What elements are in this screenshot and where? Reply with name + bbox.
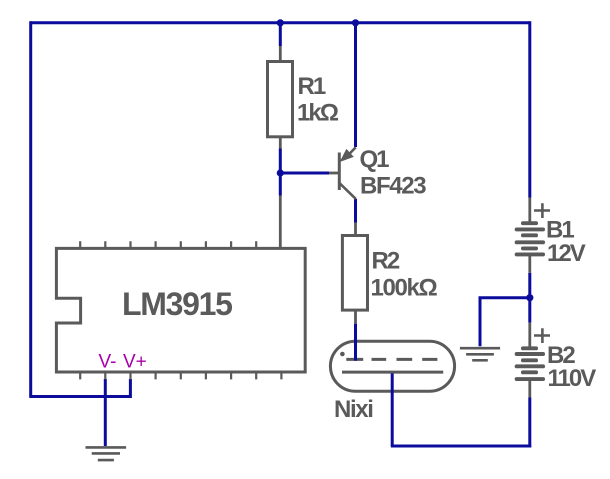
IC U1 LM3915 box [56,248,305,372]
wire bottom rail [391,445,531,448]
battery B1 leads [528,198,531,273]
wire base [280,172,329,175]
nixie tube pin-1 dot [340,352,345,357]
transistor Q1 emitter arrow [340,149,354,162]
svg-text:Nixi: Nixi [334,396,373,423]
wire emitter feed [354,23,357,147]
svg-text:1kΩ: 1kΩ [297,100,339,127]
svg-text:LM3915: LM3915 [122,286,232,322]
wire R1 bottom to base junction [279,149,282,196]
battery B2 plus sign [534,328,550,343]
wire left rail [29,21,32,396]
IC U1 bottom pins [80,373,281,379]
svg-text:BF423: BF423 [360,173,426,200]
node junction battery mid [526,294,533,301]
wire R2 to Nixi anode [354,324,357,361]
wire B2 bottom [528,398,531,448]
IC U1 top pins [80,241,256,247]
wire between batteries [528,273,531,323]
nixie tube cathode bar [342,371,443,374]
svg-text:R1: R1 [298,73,326,100]
resistor R1 [268,46,293,149]
svg-text:110V: 110V [548,365,597,392]
node junction top emitter [352,19,359,26]
battery B1 [515,221,545,256]
wire battery node to ground [480,298,530,347]
wire collector to R2 [354,199,357,223]
transistor Q1 [329,147,356,199]
resistor R2 [342,223,367,324]
svg-text:Q1: Q1 [360,146,390,173]
svg-text:100kΩ: 100kΩ [371,275,438,302]
svg-text:R2: R2 [372,248,400,275]
ground (right, battery node) [460,348,500,360]
wire top rail [31,21,530,24]
ground (left, V-) [86,447,127,460]
svg-text:12V: 12V [547,240,586,267]
node junction base [277,169,284,176]
wire Nixi cathode down [391,374,394,447]
wire right rail top [528,21,531,197]
battery B1 plus sign [534,203,550,218]
svg-text:V-: V- [99,352,117,373]
battery B2 leads [528,323,531,398]
wire V+ to left rail [29,379,130,397]
node junction top R1 [277,19,284,26]
svg-text:V+: V+ [123,352,147,373]
battery B2 [515,346,545,381]
wire V- to ground [104,379,107,446]
IC U1 pin 9 long lead [279,196,282,248]
wire R1 top feed [279,23,282,46]
nixie tube anode dashed grid [346,358,437,361]
nixie tube V1 envelope [330,341,454,391]
